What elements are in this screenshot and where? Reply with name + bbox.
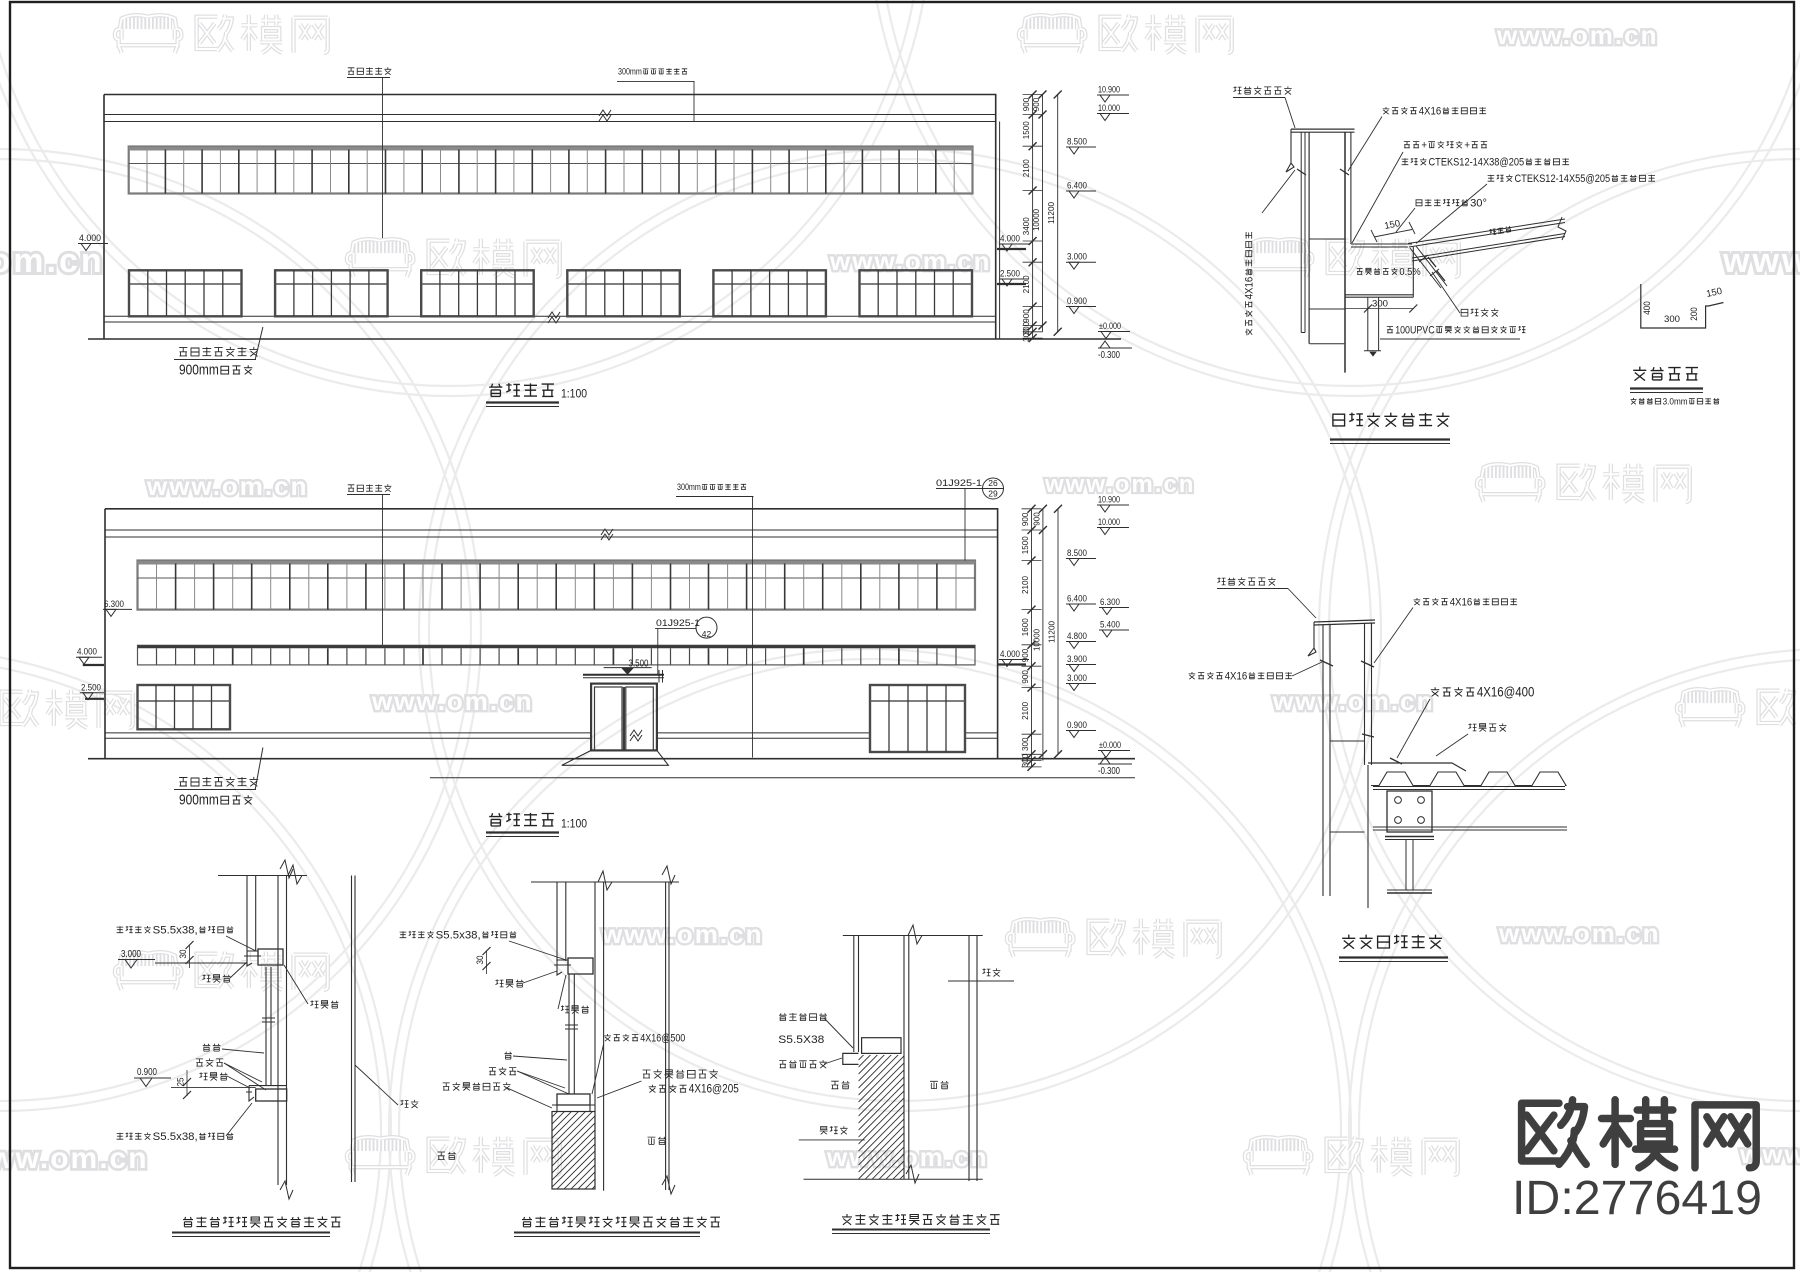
south dimension ticks <box>1023 91 1062 343</box>
eave detail wall verticals <box>1300 132 1302 332</box>
north title <box>489 813 554 826</box>
detail3 mid verticals <box>903 936 905 1180</box>
svg-text:300: 300 <box>1021 328 1031 342</box>
svg-text:4.000: 4.000 <box>79 233 101 244</box>
svg-text:S5.5x38,: S5.5x38, <box>153 924 198 936</box>
detail3 label 内侧 <box>930 1081 949 1089</box>
svg-text:0.900: 0.900 <box>1067 296 1087 307</box>
svg-text:6.400: 6.400 <box>1067 181 1087 192</box>
south leader to wall base <box>255 327 263 360</box>
gutter profile subtitle <box>1631 398 1637 404</box>
svg-text:01J925-1: 01J925-1 <box>936 478 982 489</box>
svg-text:10.900: 10.900 <box>1098 85 1120 96</box>
detail2 sill <box>557 1094 590 1105</box>
north door <box>591 684 657 751</box>
north level 4.000 left <box>999 659 1029 661</box>
svg-text:4X16@500: 4X16@500 <box>640 1032 685 1044</box>
detail3 wall sheet verticals <box>853 936 855 1053</box>
svg-text:+: + <box>1464 139 1470 151</box>
gutter profile title 天沟详图 <box>1633 367 1698 381</box>
north parapet band lines <box>105 529 998 531</box>
svg-text:01J925-1: 01J925-1 <box>656 618 700 629</box>
detail3 label 外侧 <box>831 1081 849 1089</box>
north middle window strip <box>138 645 976 665</box>
detail1 title <box>183 1217 341 1228</box>
svg-text:300: 300 <box>1664 314 1680 325</box>
svg-text:S5.5x38,: S5.5x38, <box>153 1131 198 1143</box>
svg-text:4.000: 4.000 <box>77 647 97 658</box>
svg-text:30°: 30° <box>1470 197 1487 209</box>
svg-text:900: 900 <box>1021 97 1031 111</box>
gable title 山墙檐口节点 <box>1342 935 1442 949</box>
eave label 拉铆钉Φ4X16每波峰一个 top <box>1383 107 1390 114</box>
svg-text:4.000: 4.000 <box>1000 234 1020 245</box>
north leader to wall base <box>255 748 263 790</box>
svg-text:www.om.cn: www.om.cn <box>1498 918 1661 948</box>
eave title 檐口、天沟节点 <box>1333 413 1450 427</box>
eave rotated label 拉铆钉Φ4X16每波峰一个 <box>1243 232 1255 335</box>
svg-text:6.400: 6.400 <box>1067 594 1087 605</box>
north level 4.000 far left <box>76 656 102 658</box>
svg-text:4X16: 4X16 <box>1450 596 1473 608</box>
svg-text:900: 900 <box>1020 670 1030 684</box>
detail1 sill flashing <box>246 1086 287 1101</box>
south break marks <box>599 110 611 116</box>
eave small label 屋面板 <box>1489 226 1511 236</box>
south upper window ribbon <box>129 147 973 194</box>
gable parapet cap <box>1314 620 1375 625</box>
detail1 label 立柱 <box>401 1100 419 1108</box>
eave label 自攻钉CTEKS12-14X38@205每波谷一个 <box>1402 158 1409 165</box>
eave gutter slope text <box>1357 268 1363 274</box>
svg-text:10000: 10000 <box>1032 629 1042 651</box>
svg-text:1600: 1600 <box>1020 618 1030 636</box>
svg-text:900: 900 <box>1032 512 1042 526</box>
gable flashing and roof <box>1368 763 1466 771</box>
svg-text:+: + <box>1421 139 1427 151</box>
svg-text:42: 42 <box>702 629 712 639</box>
eave label 女儿墙顶收边 <box>1234 86 1292 94</box>
svg-text:300: 300 <box>1020 754 1030 768</box>
gable label 女儿墙顶收边 <box>1218 577 1276 585</box>
gable label 拉铆钉Φ4X16@400 <box>1431 687 1440 696</box>
eave roof slanted dim 150 <box>1374 230 1412 238</box>
north dimension chain lines <box>1031 509 1033 767</box>
detail3 label 外板底收边 <box>779 1060 827 1068</box>
svg-text:1:100: 1:100 <box>561 389 587 401</box>
eave roof sheet <box>1408 219 1565 261</box>
south bottom label silver wall paint <box>179 347 258 357</box>
svg-text:2100: 2100 <box>1020 576 1030 594</box>
eave downpipe <box>1367 297 1369 351</box>
svg-text:S5.5x38,: S5.5x38, <box>436 929 481 941</box>
svg-text:3.000: 3.000 <box>1067 673 1087 684</box>
detail2 label 泛水板 second <box>561 1005 589 1013</box>
detail3 sheet bottom rail <box>862 1038 901 1054</box>
south elevation wall outline <box>104 95 996 339</box>
svg-text:1500: 1500 <box>1020 536 1030 554</box>
svg-text:3.000: 3.000 <box>121 949 141 960</box>
eave label 檐口檩条 <box>1461 308 1498 316</box>
south level -0.300 <box>1100 341 1110 348</box>
svg-text:6.300: 6.300 <box>1100 597 1120 608</box>
eave gutter dim 300 <box>1345 308 1413 310</box>
svg-text:www.om.cn: www.om.cn <box>0 1142 149 1175</box>
svg-text:4X16: 4X16 <box>1243 277 1255 300</box>
svg-text:30: 30 <box>475 956 485 965</box>
south title <box>489 383 554 396</box>
detail2 head flashing <box>554 960 571 975</box>
detail1 head line <box>155 962 247 964</box>
svg-text:400: 400 <box>1642 301 1653 315</box>
south wall base lines <box>104 315 996 317</box>
detail1 column line <box>351 876 353 1183</box>
eave label UPVC downpipe <box>1387 327 1393 333</box>
svg-text:11200: 11200 <box>1047 621 1057 643</box>
gable column I-section <box>1385 836 1434 838</box>
svg-text:4.000: 4.000 <box>1000 649 1020 660</box>
gable label 泛水收边 <box>1469 723 1507 731</box>
detail2 dim 30 <box>486 951 488 974</box>
svg-text:0.5%: 0.5% <box>1399 267 1420 278</box>
detail3 label 砌体墙 <box>820 1126 848 1134</box>
svg-text:29: 29 <box>988 489 998 499</box>
detail3 title <box>842 1214 1000 1225</box>
svg-text:±0.000: ±0.000 <box>1099 740 1121 751</box>
gable wall verticals <box>1322 625 1324 896</box>
svg-text:4X16@205: 4X16@205 <box>689 1082 739 1096</box>
svg-text:3.0mm: 3.0mm <box>1663 395 1688 406</box>
eave label 自攻钉CTEKS12-14X55@205每波谷一个 <box>1488 175 1495 182</box>
svg-text:2100: 2100 <box>1021 159 1031 177</box>
svg-text:-0.300: -0.300 <box>1098 766 1120 777</box>
detail2 label 砖墙处窗台收边 left <box>443 1082 511 1090</box>
detail2 label screw top <box>400 931 407 938</box>
detail1 sill line <box>171 1086 256 1088</box>
north lower-left window <box>138 685 231 729</box>
detail2 label 砖墙处窗台收边 right <box>643 1069 718 1078</box>
svg-text:CTEKS12-14X38@205: CTEKS12-14X38@205 <box>1429 156 1525 168</box>
svg-text:300mm: 300mm <box>677 482 701 492</box>
svg-text:11200: 11200 <box>1046 202 1056 224</box>
eave detail rivets <box>1297 169 1349 175</box>
eave label 盖胶+内封口条+盖胶 <box>1404 142 1410 148</box>
detail1 main wall lines <box>277 876 279 1186</box>
north ground line <box>88 758 1135 760</box>
detail1 label 泛水板 lower <box>200 1072 228 1080</box>
south parapet band lines <box>104 114 996 116</box>
eave label 现场截口下板30 <box>1416 200 1422 206</box>
svg-text:8.500: 8.500 <box>1067 137 1087 148</box>
detail2 top break line <box>531 881 679 883</box>
north lower-right window <box>870 685 965 752</box>
svg-text:30: 30 <box>178 950 188 959</box>
detail1 wall sheet top <box>246 876 248 952</box>
svg-text:3.000: 3.000 <box>1067 252 1087 263</box>
svg-text:www.om.cn: www.om.cn <box>826 1142 989 1172</box>
detail3 column verticals <box>968 936 970 1182</box>
detail2 window <box>568 974 570 1094</box>
svg-text:8.500: 8.500 <box>1067 548 1087 559</box>
detail1 label 泛水板 right <box>311 1000 339 1008</box>
svg-text:4X16: 4X16 <box>1419 105 1442 117</box>
svg-text:2.500: 2.500 <box>81 682 101 693</box>
svg-text:10000: 10000 <box>1031 209 1041 231</box>
detail3 bottom line <box>804 1178 983 1180</box>
svg-text:26: 26 <box>988 478 998 488</box>
svg-text:CTEKS12-14X55@205: CTEKS12-14X55@205 <box>1515 173 1611 185</box>
detail1 window <box>265 967 267 1086</box>
svg-text:4X16@400: 4X16@400 <box>1477 685 1535 700</box>
detail3 base flashing <box>843 1053 859 1064</box>
svg-text:6.300: 6.300 <box>104 599 124 610</box>
detail1 top break line <box>218 875 307 877</box>
svg-text:0.900: 0.900 <box>137 1067 157 1078</box>
detail1 label 窗户 <box>203 1044 221 1051</box>
svg-text:-0.300: -0.300 <box>1098 350 1120 361</box>
svg-text:www.om.cn: www.om.cn <box>371 686 534 716</box>
detail1 head flashing <box>244 951 261 966</box>
detail3 top line <box>843 935 983 937</box>
north label silver paint top <box>348 484 392 491</box>
svg-text:10.900: 10.900 <box>1098 495 1120 506</box>
svg-text:1500: 1500 <box>1021 121 1031 139</box>
detail1 label 密封胶 <box>196 1058 223 1066</box>
north level marks right side <box>1097 504 1129 506</box>
gable label rivet right <box>1414 598 1421 605</box>
svg-text:www.om.cn: www.om.cn <box>1272 686 1435 716</box>
north door canopy <box>583 674 664 676</box>
detail2 wall sheet top <box>556 882 558 961</box>
svg-text:www.om.cn: www.om.cn <box>829 246 992 276</box>
gable label rivet left <box>1189 672 1196 679</box>
svg-text:300mm: 300mm <box>618 67 642 77</box>
svg-text:900mm: 900mm <box>179 792 219 809</box>
svg-text:900: 900 <box>1020 512 1030 526</box>
svg-text:www.om.cn: www.om.cn <box>0 242 105 280</box>
detail2 label 内侧 <box>648 1137 667 1145</box>
svg-text:10.000: 10.000 <box>1098 517 1120 528</box>
detail3 label 立柱 <box>983 968 1001 976</box>
eave detail wall infill lines <box>1309 238 1345 240</box>
north door ramp <box>562 750 669 765</box>
north level 2.500 far left <box>80 692 104 694</box>
svg-text:100UPVC: 100UPVC <box>1395 324 1435 336</box>
north elevation wall outline <box>105 509 998 759</box>
north level -0.300 <box>1100 757 1110 764</box>
detail2 main wall lines <box>594 882 596 1112</box>
north level 6.300 far left <box>103 608 132 610</box>
svg-text:3.900: 3.900 <box>1067 654 1087 665</box>
gable wall infill lines <box>1330 740 1365 742</box>
svg-text:1:100: 1:100 <box>561 819 587 831</box>
svg-text:4X16: 4X16 <box>1225 670 1248 682</box>
svg-text:25: 25 <box>176 1078 186 1087</box>
north wall base lines <box>105 732 591 734</box>
south dimension chain lines <box>1032 95 1034 339</box>
detail2 column line <box>665 882 667 1190</box>
south dimension numbers <box>1021 97 1056 341</box>
eave purlin <box>1410 246 1447 288</box>
svg-text:900mm: 900mm <box>179 362 219 379</box>
detail1 dim 25 <box>186 1070 188 1096</box>
svg-text:900: 900 <box>1020 648 1030 662</box>
svg-text:S5.5X38: S5.5X38 <box>778 1034 824 1046</box>
north upper window ribbon <box>138 561 976 610</box>
north break marks <box>601 529 613 535</box>
svg-text:www.om.cn: www.om.cn <box>1496 20 1659 50</box>
big omwang logo text <box>1522 1100 1757 1168</box>
eave gutter <box>1345 244 1413 297</box>
svg-text:www.om.cn: www.om.cn <box>146 471 309 501</box>
svg-text:±0.000: ±0.000 <box>1099 321 1121 332</box>
svg-text:900: 900 <box>1031 97 1041 111</box>
svg-text:10.000: 10.000 <box>1098 103 1120 114</box>
svg-text:www.om.cn: www.om.cn <box>601 919 764 949</box>
svg-text:900: 900 <box>1021 309 1031 323</box>
svg-text:200: 200 <box>1689 307 1700 321</box>
svg-text:4.800: 4.800 <box>1067 631 1087 642</box>
detail2 label 拉铆钉Φ4X16@500 <box>604 1034 611 1041</box>
detail1 dim 30 <box>189 945 191 968</box>
svg-text:300: 300 <box>1372 299 1388 310</box>
detail2 label 泛水板 upper <box>496 979 524 987</box>
svg-text:3400: 3400 <box>1021 217 1031 235</box>
svg-text:0.900: 0.900 <box>1067 720 1087 731</box>
detail1 label screw top <box>117 926 124 933</box>
gable rivets <box>1320 660 1374 737</box>
south label silver paint top <box>348 67 392 74</box>
south level marks right side <box>1097 94 1129 96</box>
detail2 label 密封胶 <box>489 1067 516 1075</box>
detail2 label 外侧 <box>437 1152 456 1160</box>
gutter profile shape <box>1641 284 1724 328</box>
detail3 label 每波谷一颗 <box>779 1013 827 1021</box>
north dimension ticks <box>1022 505 1063 771</box>
detail1 label screw bottom <box>117 1133 124 1140</box>
detail1 label 泛水板 upper <box>203 974 231 982</box>
detail2 label 窗 <box>504 1052 512 1059</box>
svg-text:2.500: 2.500 <box>1000 269 1020 280</box>
south ground line <box>88 338 1121 340</box>
south levels 4.000 2.500 left <box>999 243 1029 245</box>
north dimension numbers <box>1020 512 1057 767</box>
detail2 title <box>522 1217 720 1228</box>
south wall corner inner line <box>999 122 1001 339</box>
svg-text:www.om.cn: www.om.cn <box>1722 242 1800 280</box>
svg-text:300: 300 <box>1020 737 1030 751</box>
north bottom label silver wall paint <box>179 777 258 787</box>
gable bolted plate <box>1387 791 1432 832</box>
south lower window groups <box>129 270 972 316</box>
svg-text:ID:2776419: ID:2776419 <box>1512 1172 1762 1225</box>
eave detail parapet cap <box>1291 129 1355 132</box>
gable beam <box>1373 826 1567 828</box>
svg-text:5.400: 5.400 <box>1100 620 1120 631</box>
svg-text:2100: 2100 <box>1020 702 1030 720</box>
south level mark 4.000 <box>78 243 108 245</box>
